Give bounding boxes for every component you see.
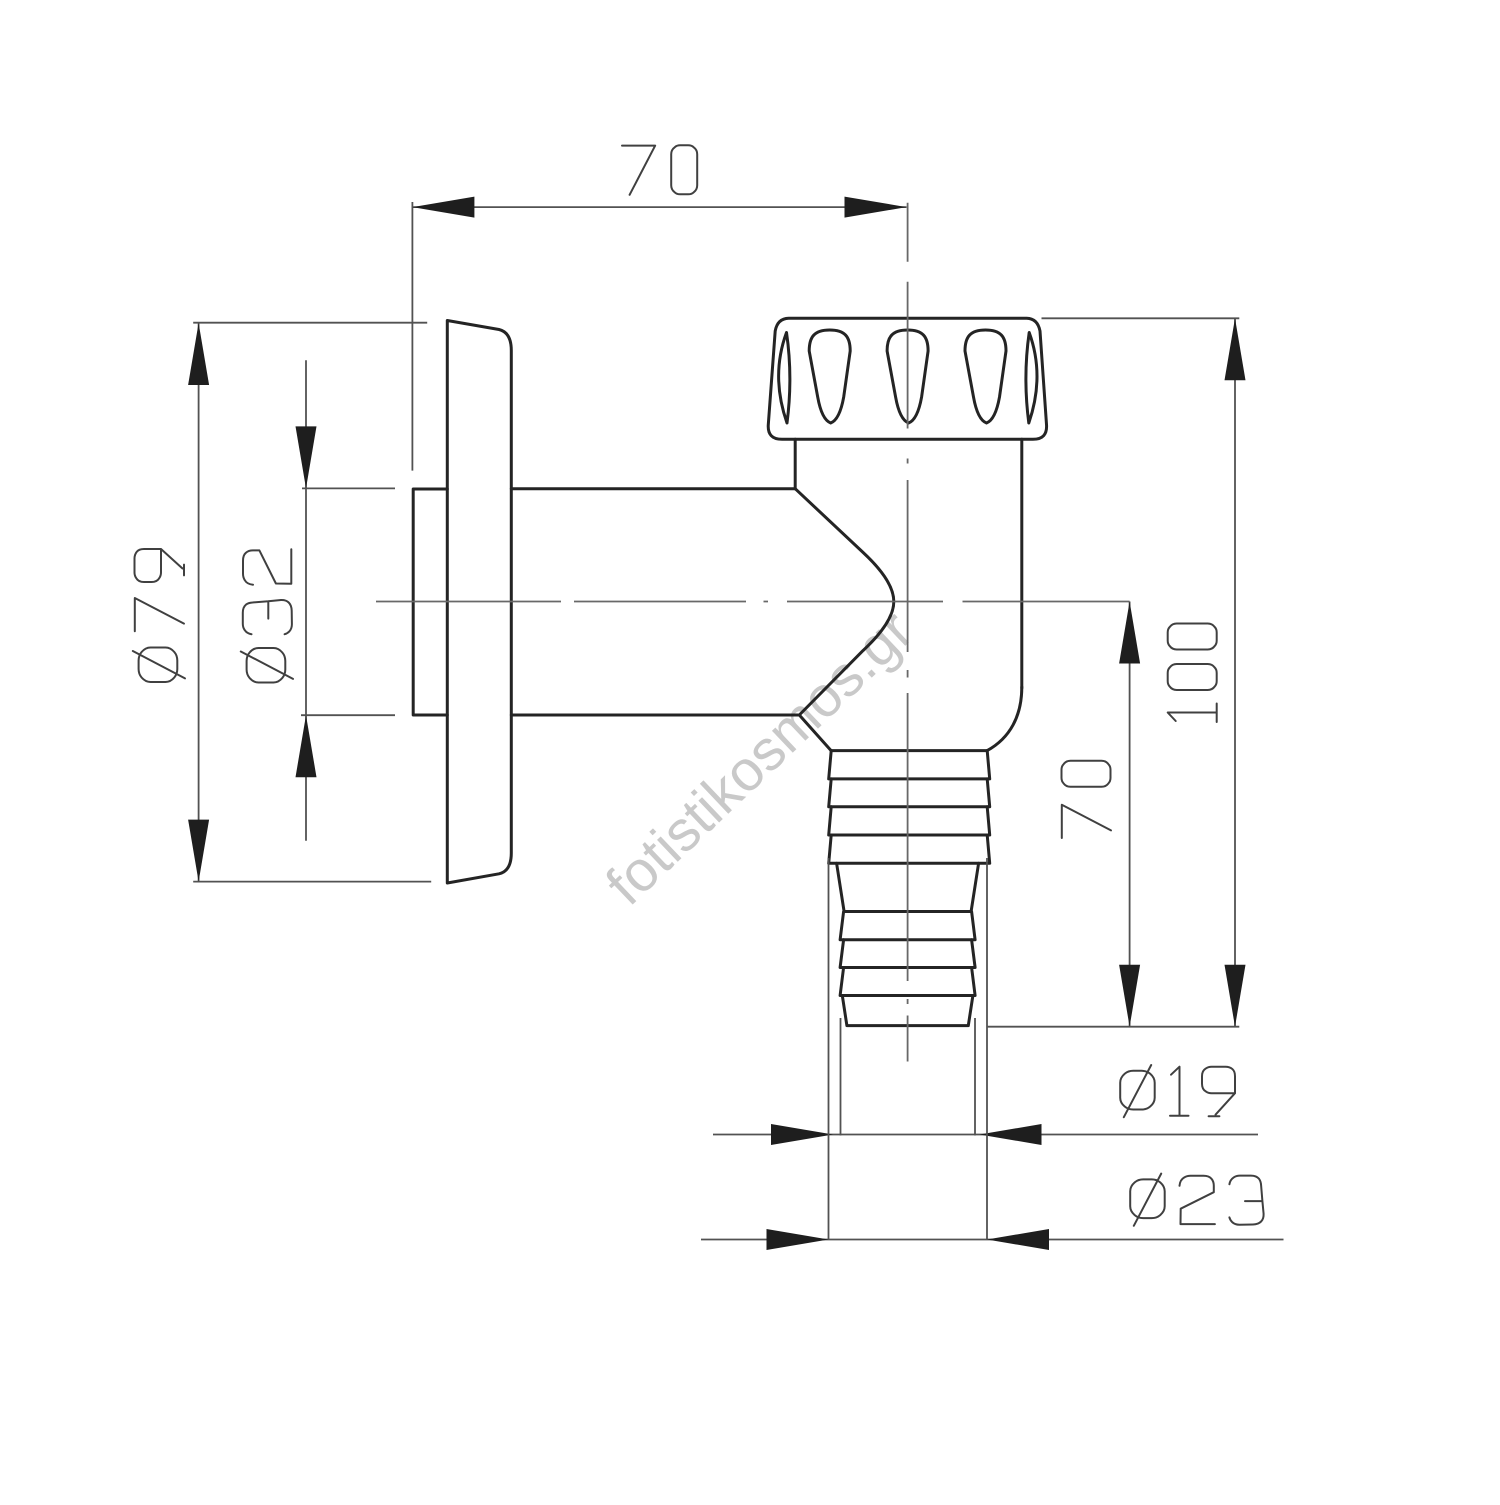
horizontal inlet pipe bottom line (511, 714, 799, 717)
body neck left edge (794, 439, 797, 488)
dim d79: dimension line (198, 323, 200, 882)
dim d79: bottom arrow (188, 820, 209, 882)
dim 100: top extension line (from cap top) (1042, 317, 1240, 319)
body right shoulder curve (987, 687, 1022, 751)
horizontal center line of inlet pipe (376, 601, 1130, 603)
dim 70 right: top arrow (1119, 602, 1140, 664)
dim 100: top arrow (1225, 318, 1246, 380)
cap knurl slot right partial (1026, 333, 1037, 424)
dim d19: left arrow (771, 1124, 833, 1145)
dim 70 top: label "70" (622, 145, 697, 195)
dim 70 top: left extension line (wall face) (411, 202, 413, 471)
barb ridge band 6 (840, 940, 975, 968)
dim 70 right: dimension line (1129, 602, 1131, 1027)
cap knurl slot 2 (center) (887, 330, 928, 423)
cap knurl slot left partial (779, 333, 790, 424)
horizontal inlet pipe top line (511, 487, 795, 490)
body left cone edge (799, 715, 831, 751)
knurled cap outline (768, 318, 1046, 439)
barb smooth waist section (837, 863, 979, 911)
dim d32: top extension line (302, 487, 395, 489)
barb ridge band 1 (829, 751, 990, 779)
barb ridge band 2 (829, 779, 990, 807)
dim d32: bottom arrow (outside, pointing up) (296, 715, 317, 777)
barb tip band (842, 996, 973, 1026)
dim d79: top extension line (193, 322, 427, 324)
body-pipe intersection curve (795, 489, 894, 715)
dim d23: right arrow (987, 1229, 1049, 1250)
dim 100: bottom extension line (from barb end) (987, 1026, 1239, 1028)
dim d79: bottom extension line (193, 881, 431, 883)
barb ridge band 7 (d19 crest) (840, 968, 975, 996)
dim d19: right extension line (974, 1018, 976, 1136)
dim d32: label "d32" (241, 549, 293, 682)
dim 100: label "100" (1168, 624, 1217, 723)
svg-text:fotistikosmos.gr: fotistikosmos.gr (594, 598, 925, 917)
dim 100: bottom arrow (1225, 965, 1246, 1027)
dim d19: dimension line (713, 1134, 1258, 1136)
dim 70 top: dimension line (412, 206, 906, 208)
barb ridge band 3 (829, 807, 990, 835)
wall-side pipe stub (d32) (413, 489, 447, 715)
wall flange plate (447, 321, 511, 884)
dim d32: bottom extension line (301, 714, 395, 716)
dim d79: top arrow (188, 323, 209, 385)
cap knurl slot 1 (809, 330, 850, 423)
dim d23: right extension line (986, 858, 988, 1240)
dim d79: label "d79" (133, 549, 185, 682)
dim d23: label "d23" (1130, 1174, 1263, 1226)
dim 70 right: label "70" (1062, 761, 1112, 838)
dim d19: label "d19" (1120, 1065, 1235, 1117)
dim 100: dimension line (1234, 318, 1236, 1026)
dim d23: left arrow (767, 1229, 829, 1250)
dim d23: left extension line (828, 858, 830, 1240)
cap knurl slot 3 (965, 330, 1006, 423)
body right edge (1020, 439, 1023, 688)
dim 70 top: left arrow (412, 197, 474, 218)
vertical center line of valve body (907, 203, 909, 1062)
hose barb top line (831, 749, 987, 752)
dim 70 right: bottom arrow (1119, 965, 1140, 1027)
dim 70 top: right arrow (845, 197, 907, 218)
barb ridge band 4 (d23 crest) (829, 835, 990, 863)
dim d32: dimension line (305, 360, 307, 840)
dim d32: top arrow (outside, pointing down) (296, 426, 317, 488)
dim d19: left extension line (840, 1018, 842, 1136)
dim d23: dimension line (701, 1239, 1284, 1241)
barb ridge band 5 (840, 912, 975, 940)
dim d19: right arrow (980, 1124, 1042, 1145)
